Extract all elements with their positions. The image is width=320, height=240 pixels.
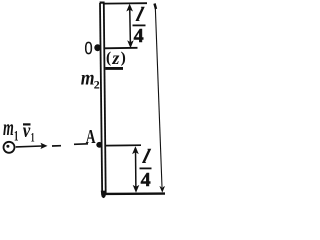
underline of (z) bbox=[105, 67, 123, 70]
dimension arrow bottom l/4 bbox=[132, 146, 139, 193]
svg-text:1: 1 bbox=[14, 129, 19, 145]
svg-text:A: A bbox=[86, 126, 96, 148]
right reference line (full length) bbox=[155, 7, 162, 187]
label v1 with bar bbox=[23, 123, 31, 125]
svg-text:m: m bbox=[3, 115, 14, 141]
node A junction dot bbox=[96, 142, 102, 148]
dashed trajectory line bbox=[52, 145, 61, 147]
node O junction dot bbox=[94, 44, 101, 51]
rod (vertical double line, mass m2) bbox=[100, 3, 106, 198]
svg-text:m: m bbox=[81, 67, 95, 89]
tick at rod bottom bbox=[104, 192, 165, 195]
svg-text:O: O bbox=[85, 38, 93, 58]
svg-text:4: 4 bbox=[141, 169, 151, 191]
tick at A level bbox=[105, 144, 141, 146]
svg-text:(z): (z) bbox=[106, 48, 127, 68]
svg-text:4: 4 bbox=[134, 25, 144, 47]
tick at rod top bbox=[104, 2, 147, 4]
tick at O level bbox=[104, 47, 138, 50]
svg-text:2: 2 bbox=[94, 78, 100, 92]
svg-text:1: 1 bbox=[31, 129, 35, 144]
velocity arrow v1 bbox=[16, 145, 42, 148]
dimension arrow top l/4 bbox=[126, 4, 133, 49]
ball m1 bbox=[4, 142, 15, 153]
